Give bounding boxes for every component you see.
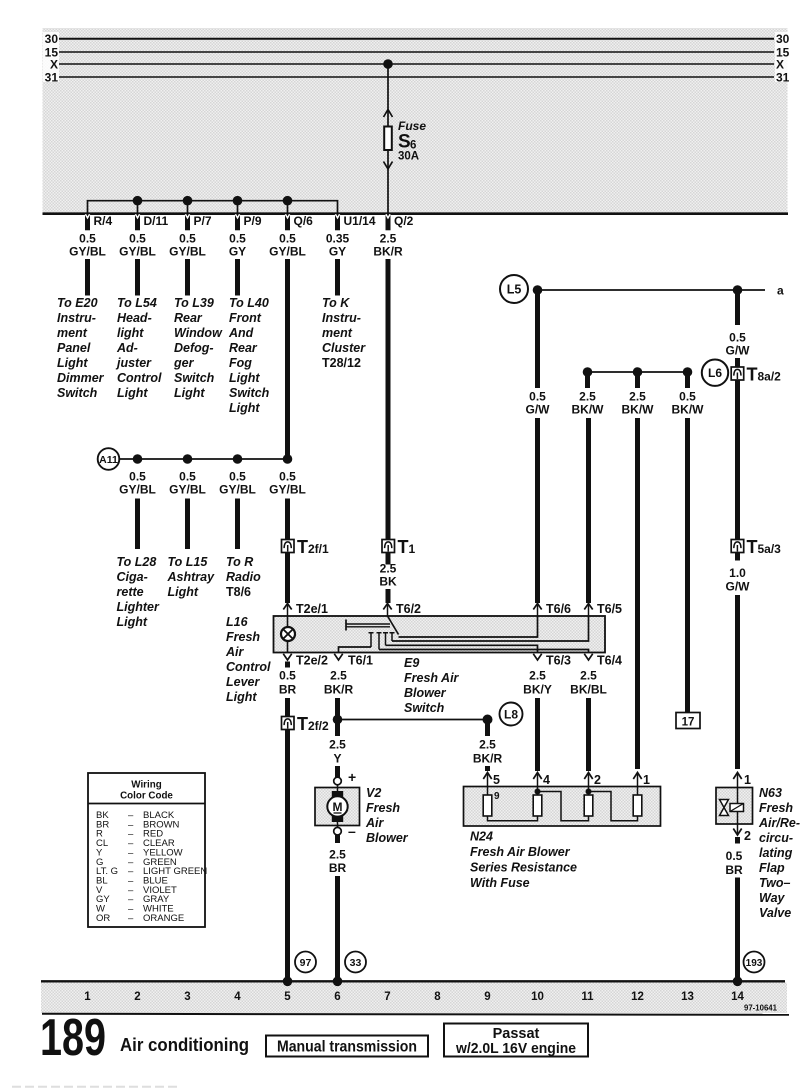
terminal arrow N24/4 <box>533 773 550 788</box>
svg-text:Color Code: Color Code <box>120 791 173 802</box>
svg-text:T: T <box>747 537 758 557</box>
svg-text:ORANGE: ORANGE <box>143 913 184 924</box>
ground reference circle 193 <box>744 952 765 973</box>
fuse S6 body <box>384 127 392 151</box>
svg-text:Light: Light <box>168 585 199 599</box>
wire from fuse down to terminal Q/2 <box>387 150 389 213</box>
bus wire 31 <box>59 76 774 78</box>
wire V2 to ground rail <box>335 835 340 843</box>
svg-text:ger: ger <box>173 356 195 370</box>
svg-text:Head-: Head- <box>117 311 152 325</box>
svg-text:Instru-: Instru- <box>322 311 361 325</box>
svg-text:P/9: P/9 <box>244 214 262 228</box>
junction at L15 branch <box>183 454 193 464</box>
wire R1 to R2 <box>488 816 538 821</box>
wire col13 upper stub <box>685 374 690 388</box>
svg-text:1: 1 <box>643 773 650 787</box>
svg-text:Wiring: Wiring <box>131 780 161 791</box>
svg-text:0.5: 0.5 <box>229 232 246 246</box>
svg-text:2.5: 2.5 <box>579 390 596 404</box>
svg-text:Dimmer: Dimmer <box>57 371 105 385</box>
wire size 0.5 BR below T2e/2 <box>279 669 297 697</box>
wire stub Q/6 <box>287 201 289 213</box>
resistor R1 <box>483 795 492 816</box>
svg-text:T6/1: T6/1 <box>348 654 373 668</box>
svg-text:Switch: Switch <box>57 386 98 400</box>
svg-text:circu-: circu- <box>759 831 793 845</box>
wire from bus X down to fuse <box>387 64 389 126</box>
svg-text:Defog-: Defog- <box>174 341 214 355</box>
svg-text:To L40: To L40 <box>229 296 269 310</box>
svg-text:To K: To K <box>322 296 350 310</box>
label To L39 Rear Window Defogger Switch Light <box>173 296 223 400</box>
svg-text:BR: BR <box>279 683 297 697</box>
wire T1 to T6/2 <box>386 553 391 565</box>
svg-text:To E20: To E20 <box>57 296 98 310</box>
valve bowtie symbol <box>720 800 729 816</box>
wire size 2.5 BK/R below T6/1 <box>324 669 354 697</box>
svg-text:Light: Light <box>57 356 88 370</box>
svg-text:2.5: 2.5 <box>529 669 546 683</box>
svg-text:BK/BL: BK/BL <box>570 683 607 697</box>
wire stub D/11 <box>137 201 139 213</box>
svg-text:30: 30 <box>45 32 59 46</box>
junction top of R3 <box>586 787 592 796</box>
ground rail band <box>41 983 787 1014</box>
terminal Q/6 <box>285 214 313 231</box>
wire stub P/9 <box>237 201 239 213</box>
svg-text:GY/BL: GY/BL <box>269 245 306 259</box>
svg-text:Air conditioning: Air conditioning <box>120 1034 249 1055</box>
label To L15 Ashtray Light <box>167 555 216 599</box>
svg-text:T: T <box>398 537 409 557</box>
terminal arrow T6/3 <box>533 654 571 668</box>
svg-text:lating: lating <box>759 846 793 860</box>
junction D/11 <box>133 196 143 206</box>
svg-text:T28/12: T28/12 <box>322 356 361 370</box>
svg-text:0.5: 0.5 <box>729 331 746 345</box>
svg-text:8a/2: 8a/2 <box>758 370 782 384</box>
wire size 2.5 BK/W col11 <box>572 390 605 417</box>
node wire14 on rail <box>733 977 743 987</box>
svg-text:Y: Y <box>333 752 341 766</box>
switch actuator bar <box>346 620 390 631</box>
wire size 0.5 GY/BL col5 <box>269 232 306 259</box>
wire size 0.35 GY col6 <box>326 232 350 259</box>
fresh air blower switch E9 body <box>274 616 606 653</box>
svg-text:Air/Re-: Air/Re- <box>758 816 800 830</box>
svg-text:ment: ment <box>57 326 88 340</box>
svg-text:Panel: Panel <box>57 341 91 355</box>
svg-text:And: And <box>228 326 254 340</box>
svg-text:GY/BL: GY/BL <box>169 245 206 259</box>
svg-text:Rear: Rear <box>229 341 258 355</box>
svg-text:0.5: 0.5 <box>279 470 296 484</box>
svg-text:1: 1 <box>744 773 751 787</box>
wire T2e/2 down to T2f/2 <box>285 698 290 717</box>
svg-text:2.5: 2.5 <box>330 669 347 683</box>
connection marker A11 <box>98 448 120 470</box>
svg-text:0.5: 0.5 <box>679 390 696 404</box>
svg-text:1: 1 <box>84 991 91 1003</box>
svg-text:2.5: 2.5 <box>479 738 496 752</box>
svg-text:GY/BL: GY/BL <box>269 483 306 497</box>
connector T2f/2 <box>282 714 330 734</box>
svg-text:T6/4: T6/4 <box>597 654 622 668</box>
wire size 0.5 GY col4 <box>229 232 246 259</box>
wire col12 upper stub <box>635 374 640 388</box>
svg-text:T: T <box>297 714 308 734</box>
svg-text:Light: Light <box>117 386 148 400</box>
svg-text:Ashtray: Ashtray <box>167 570 216 584</box>
svg-text:To L39: To L39 <box>174 296 214 310</box>
switch contact prong 3 <box>390 633 395 641</box>
svg-text:Series Resistance: Series Resistance <box>470 861 577 875</box>
svg-text:BK/R: BK/R <box>473 752 503 766</box>
svg-text:GY: GY <box>329 245 346 259</box>
svg-text:Instru-: Instru- <box>57 311 96 325</box>
svg-text:5: 5 <box>493 773 500 787</box>
junction at L28 branch <box>133 454 143 464</box>
svg-text:Cluster: Cluster <box>322 341 366 355</box>
svg-text:G/W: G/W <box>726 344 751 358</box>
terminal arrow T2e/2 <box>283 654 328 668</box>
svg-text:G/W: G/W <box>726 580 751 594</box>
svg-text:Switch: Switch <box>229 386 270 400</box>
label To E20 Instrument Panel Light Dimmer Switch <box>57 296 105 400</box>
wire size 0.5 GY/BL branch2 <box>169 470 206 497</box>
wire col12 long down to N24 terminal 1 <box>635 418 640 769</box>
switch blade from T6/2 <box>388 616 399 635</box>
wire size 0.5 BK/W col13 <box>672 390 705 417</box>
svg-text:BK/Y: BK/Y <box>523 683 552 697</box>
wire to E20 <box>85 259 90 296</box>
svg-text:Lever: Lever <box>226 675 260 689</box>
terminal arrow T6/6 <box>533 602 571 616</box>
svg-text:Front: Front <box>229 311 262 325</box>
svg-text:30A: 30A <box>398 151 419 163</box>
svg-text:BK/W: BK/W <box>572 403 605 417</box>
fuse labels Fuse S6 30A <box>398 119 426 163</box>
wire size 0.5 G/W col14 <box>726 331 751 358</box>
svg-text:97-10641: 97-10641 <box>744 1004 778 1013</box>
wire T5a/3 down to N63 <box>735 553 740 561</box>
wire tap4 to R3 <box>538 792 589 821</box>
motor symbol M <box>327 785 347 828</box>
junction top of R2 <box>535 787 541 796</box>
svg-text:With Fuse: With Fuse <box>470 876 530 890</box>
valve wire through <box>737 788 739 825</box>
wire col10 upper <box>535 292 540 388</box>
terminal U1/14 <box>335 214 376 231</box>
svg-text:M: M <box>333 800 343 814</box>
svg-text:GY/BL: GY/BL <box>219 483 256 497</box>
box Manual transmission <box>266 1036 428 1057</box>
svg-text:S: S <box>398 132 411 153</box>
svg-text:Fresh: Fresh <box>226 630 260 644</box>
resistor R2 <box>533 795 542 816</box>
junction col13 <box>683 367 693 377</box>
wire prong2 to T6/3 <box>386 645 538 652</box>
svg-text:N63: N63 <box>759 786 782 800</box>
svg-text:juster: juster <box>115 356 152 370</box>
svg-text:Ad-: Ad- <box>116 341 138 355</box>
svg-text:E9: E9 <box>404 656 419 670</box>
svg-text:T6/2: T6/2 <box>396 602 421 616</box>
svg-text:Light: Light <box>229 371 260 385</box>
arrow down below fuse <box>384 162 393 170</box>
V2 plus terminal <box>334 769 356 785</box>
svg-text:0.5: 0.5 <box>79 232 96 246</box>
svg-text:ment: ment <box>322 326 353 340</box>
arrow up above fuse <box>384 110 393 118</box>
svg-text:2.5: 2.5 <box>329 848 346 862</box>
switch contact prong 2 <box>383 633 388 646</box>
wire col11 upper stub <box>585 374 590 388</box>
node on bus X feeding fuse S6 <box>383 59 393 69</box>
svg-text:Blower: Blower <box>404 686 447 700</box>
wire down to N24 terminal 5 <box>485 722 490 736</box>
svg-text:2: 2 <box>134 991 140 1003</box>
bus labels left <box>43 32 59 84</box>
splice wire to N24 branch <box>338 719 488 721</box>
junction N24 branch <box>483 715 493 725</box>
fresh air blower V2 body <box>315 788 360 826</box>
wire to L40 <box>235 259 240 296</box>
wire blade contact to T6/6 <box>399 616 538 637</box>
svg-text:X: X <box>776 57 784 71</box>
svg-text:0.5: 0.5 <box>726 849 743 863</box>
lamp L16 inside E9 <box>281 616 295 653</box>
wire T8a/2 to T5a/3 <box>735 380 740 540</box>
svg-text:Q/6: Q/6 <box>294 214 314 228</box>
V2 minus terminal <box>334 823 356 839</box>
terminal arrow T6/2 <box>383 602 421 616</box>
ground reference circle 33 <box>345 952 366 973</box>
wire size 0.5 GY/BL col3 <box>169 232 206 259</box>
svg-text:31: 31 <box>45 70 59 84</box>
svg-text:BK/W: BK/W <box>672 403 705 417</box>
ground point 17 <box>676 713 700 729</box>
wire net a from L5 <box>533 289 765 291</box>
label To L40 Front And Rear Fog Light Switch Light <box>228 296 270 415</box>
svg-text:BK: BK <box>379 575 397 589</box>
svg-text:5a/3: 5a/3 <box>758 542 782 556</box>
svg-text:Switch: Switch <box>404 701 445 715</box>
svg-text:T2e/2: T2e/2 <box>296 654 328 668</box>
terminal arrow T2e/1 <box>283 602 328 616</box>
svg-text:12: 12 <box>631 991 644 1003</box>
svg-text:6: 6 <box>334 991 340 1003</box>
svg-text:Manual transmission: Manual transmission <box>277 1039 417 1056</box>
wire size 0.5 GY/BL col2 <box>119 232 156 259</box>
wire tap2 to R4 <box>589 792 638 821</box>
svg-text:X: X <box>50 57 58 71</box>
svg-text:T2e/1: T2e/1 <box>296 602 328 616</box>
wire size 0.5 GY/BL branch4 <box>269 470 306 497</box>
svg-text:31: 31 <box>776 70 790 84</box>
svg-text:Light: Light <box>117 615 148 629</box>
svg-text:a: a <box>777 284 784 298</box>
wire Q/6 down to A11 node <box>285 259 290 456</box>
svg-text:Switch: Switch <box>174 371 215 385</box>
svg-text:Fresh Air: Fresh Air <box>404 671 460 685</box>
solenoid box with diagonal <box>730 804 744 812</box>
svg-text:T: T <box>747 365 758 385</box>
svg-text:N24: N24 <box>470 830 493 844</box>
svg-text:To L28: To L28 <box>117 555 157 569</box>
wire to L28 <box>135 499 140 550</box>
wire to L54 <box>135 259 140 296</box>
svg-text:0.5: 0.5 <box>229 470 246 484</box>
svg-text:T6/6: T6/6 <box>546 602 571 616</box>
two-way valve N63 body <box>716 788 753 825</box>
wire down to V2 plus <box>335 766 340 778</box>
svg-text:w/2.0L 16V engine: w/2.0L 16V engine <box>455 1041 576 1057</box>
terminal D/11 <box>135 214 169 231</box>
svg-text:0.35: 0.35 <box>326 232 350 246</box>
page edge dashes <box>12 1086 178 1088</box>
wire T6/1 down to splice <box>335 698 340 736</box>
label N24 Fresh Air Blower Series Resistance With Fuse <box>470 830 577 891</box>
label To L28 Cigarette Lighter Light <box>117 555 160 629</box>
svg-text:Ciga-: Ciga- <box>117 570 148 584</box>
resistor R4 <box>633 795 642 816</box>
wire prong0 to T6/1 <box>339 647 372 653</box>
svg-text:V2: V2 <box>366 786 381 800</box>
svg-text:OR: OR <box>96 913 110 924</box>
junction at R radio branch <box>233 454 243 464</box>
wire size 2.5 Y col6 <box>329 738 346 766</box>
terminal arrow N63/1 <box>733 773 751 788</box>
svg-text:GY/BL: GY/BL <box>69 245 106 259</box>
switch contact prong 1 <box>377 633 382 650</box>
svg-text:Control: Control <box>117 371 162 385</box>
wire col11 to T6/5 <box>586 418 591 603</box>
wire size 1.0 G/W col14 <box>726 566 751 594</box>
wire prong3 to T6/5 <box>392 616 589 641</box>
junction P/7 <box>183 196 193 206</box>
svg-text:30: 30 <box>776 32 790 46</box>
node wire6 on rail <box>333 977 343 987</box>
svg-text:2: 2 <box>594 773 601 787</box>
wire to L39 <box>185 259 190 296</box>
label To L54 Headlight Adjuster Control Light <box>115 296 162 400</box>
wire T2f/2 down to ground rail <box>285 730 290 982</box>
junction blower feed <box>333 715 343 725</box>
resistor R1 lead <box>487 787 489 796</box>
bus labels right <box>775 32 791 84</box>
junction col11 <box>583 367 593 377</box>
wire Q/2 down to connector T1 <box>386 259 391 540</box>
bus wire X <box>59 63 774 65</box>
wire stub P/7 <box>187 201 189 213</box>
svg-text:10: 10 <box>531 991 544 1003</box>
svg-text:–: – <box>128 913 134 924</box>
svg-text:33: 33 <box>350 957 362 969</box>
connection marker L8 <box>500 703 523 726</box>
svg-text:Valve: Valve <box>759 906 791 920</box>
terminal arrow N24/1 <box>633 773 650 788</box>
wire size 2.5 BR col6 <box>329 848 347 876</box>
svg-text:Light: Light <box>174 386 205 400</box>
svg-text:U1/14: U1/14 <box>344 214 376 228</box>
svg-text:Fresh: Fresh <box>759 801 793 815</box>
svg-text:Control: Control <box>226 660 271 674</box>
terminal arrow N24/5 <box>483 773 500 788</box>
svg-text:Passat: Passat <box>493 1026 540 1042</box>
terminal arrow N24/2 <box>584 773 601 788</box>
svg-text:11: 11 <box>581 991 594 1003</box>
resistor R3 <box>584 795 593 816</box>
svg-text:Flap: Flap <box>759 861 785 875</box>
svg-text:Light: Light <box>226 690 257 704</box>
wire size 0.5 GY/BL branch3 <box>219 470 256 497</box>
svg-text:P/7: P/7 <box>194 214 212 228</box>
svg-text:8: 8 <box>434 991 441 1003</box>
svg-text:A11: A11 <box>99 454 118 466</box>
svg-text:GY/BL: GY/BL <box>169 483 206 497</box>
svg-text:0.5: 0.5 <box>279 232 296 246</box>
wire size 2.5 BK below T1 <box>379 562 397 589</box>
label L16 Fresh Air Control Lever Light <box>225 615 271 704</box>
svg-text:L16: L16 <box>226 615 249 629</box>
svg-text:light: light <box>117 326 144 340</box>
wire col14 upper <box>735 292 740 325</box>
svg-text:–: – <box>348 823 356 839</box>
svg-text:Way: Way <box>759 891 786 905</box>
svg-text:BR: BR <box>725 863 743 877</box>
node wire5 on rail <box>283 977 293 987</box>
wire col10 to T6/6 <box>535 418 540 603</box>
wire to K instrument cluster <box>335 259 340 296</box>
svg-text:L8: L8 <box>504 708 518 722</box>
splice wire BK/W group <box>588 371 688 373</box>
svg-text:L6: L6 <box>708 366 722 380</box>
connection marker L5 <box>500 275 528 303</box>
wire bridging terminals R/4 to U1/14 inside band <box>88 201 338 213</box>
svg-text:3: 3 <box>184 991 190 1003</box>
svg-text:L5: L5 <box>507 283 522 297</box>
svg-text:193: 193 <box>746 958 763 969</box>
svg-text:BK/R: BK/R <box>324 683 354 697</box>
svg-text:Q/2: Q/2 <box>394 214 414 228</box>
svg-text:14: 14 <box>731 991 744 1003</box>
series resistance N24 body <box>464 787 661 827</box>
svg-text:97: 97 <box>300 957 312 969</box>
svg-text:0.5: 0.5 <box>179 470 196 484</box>
rail track numbers 1-14 <box>84 991 744 1003</box>
svg-text:rette: rette <box>117 585 144 599</box>
svg-text:Fog: Fog <box>229 356 252 370</box>
junction on Q/6 wire <box>283 454 293 464</box>
box Passat w/2.0L 16V engine <box>444 1024 588 1058</box>
svg-text:BK/W: BK/W <box>622 403 655 417</box>
ground reference circle 97 <box>295 952 316 973</box>
terminal arrow T6/5 <box>584 602 622 616</box>
terminal P/7 <box>185 214 212 231</box>
svg-text:2: 2 <box>744 829 751 843</box>
svg-text:0.5: 0.5 <box>179 232 196 246</box>
svg-text:1: 1 <box>409 542 416 556</box>
svg-text:189: 189 <box>40 1009 106 1067</box>
svg-text:T8/6: T8/6 <box>226 585 251 599</box>
svg-text:2.5: 2.5 <box>380 232 397 246</box>
wire size 0.5 GY/BL branch1 <box>119 470 156 497</box>
wire prong1 to T6/4 <box>379 650 589 653</box>
svg-text:Window: Window <box>174 326 223 340</box>
terminal arrow T6/1 <box>334 654 373 668</box>
